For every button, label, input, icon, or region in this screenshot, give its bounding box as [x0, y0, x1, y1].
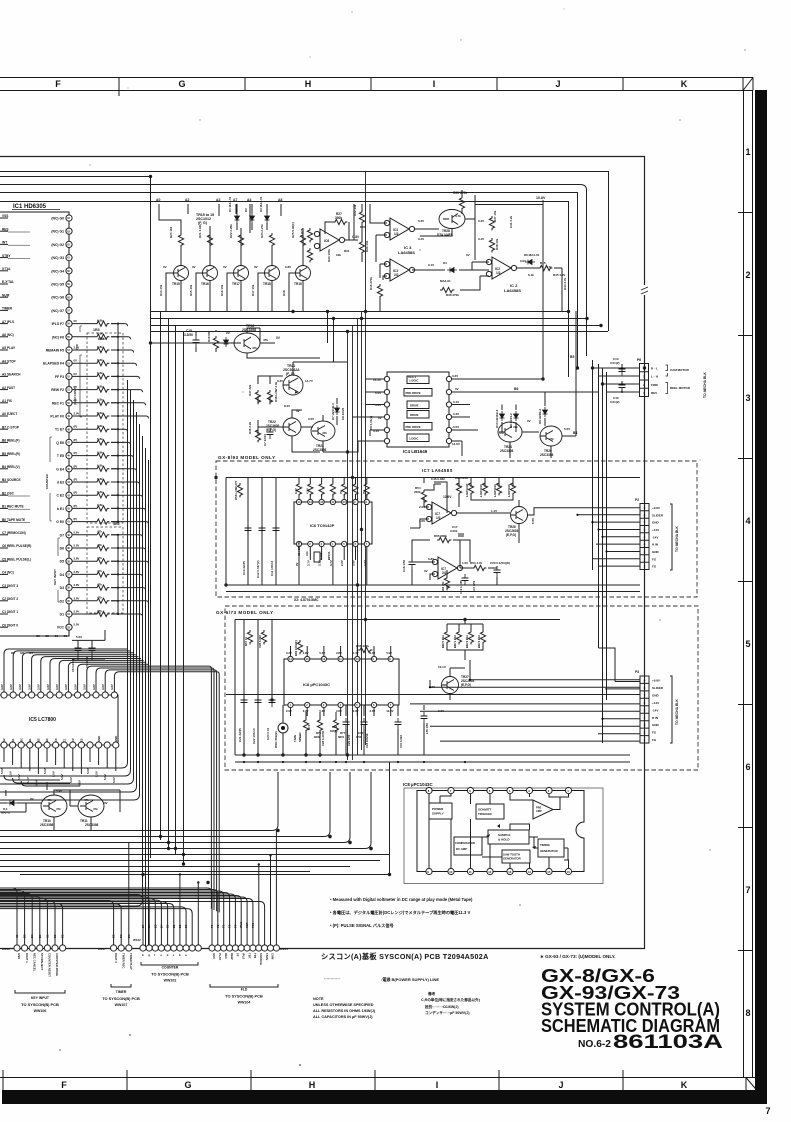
svg-text:KEY INPUT: KEY INPUT — [53, 569, 57, 585]
svg-text:D7 HZ11B-3: D7 HZ11B-3 — [331, 403, 335, 420]
svg-text:F: F — [55, 79, 61, 89]
svg-text:5.0V: 5.0V — [69, 777, 73, 783]
svg-text:KEY INPUT: KEY INPUT — [31, 996, 50, 1000]
wires IC4 left pins — [347, 379, 384, 452]
svg-text:GX-8/93 MODEL ONLY: GX-8/93 MODEL ONLY — [218, 455, 276, 460]
svg-text:TR15: TR15 — [172, 282, 180, 286]
wires into P2 — [578, 515, 641, 566]
R66 R67 C19 cluster — [444, 576, 449, 590]
svg-text:5.0V: 5.0V — [74, 530, 80, 534]
resistors R70-R73 — [444, 630, 449, 644]
svg-text:F: F — [61, 1080, 67, 1090]
svg-text:B0: B0 — [45, 738, 49, 742]
wires IC7-1 — [410, 478, 640, 544]
svg-text:D1 MA4-01: D1 MA4-01 — [228, 196, 232, 212]
svg-text:3: 3 — [745, 393, 750, 403]
svg-text:REW: REW — [230, 953, 234, 960]
svg-text:47k: 47k — [97, 596, 102, 600]
svg-text:47k: 47k — [84, 798, 89, 802]
svg-text:3.8V: 3.8V — [55, 684, 59, 690]
node labels A0 A2 A3 A7 A4 A8 — [156, 198, 282, 202]
svg-text:C1: C1 — [62, 738, 66, 742]
svg-text::電源 B(POWER SUPPLY) LINE: :電源 B(POWER SUPPLY) LINE — [381, 976, 439, 982]
svg-text:R24 2.27k: R24 2.27k — [260, 224, 264, 238]
svg-text:0V: 0V — [296, 409, 300, 413]
svg-text:ALL CAPACITORS IN µF 50WV(J): ALL CAPACITORS IN µF 50WV(J) — [313, 1015, 373, 1019]
svg-text:TIMER PLAY: TIMER PLAY — [129, 953, 133, 970]
svg-text:D3 MA4-01: D3 MA4-01 — [259, 196, 263, 212]
svg-text:4: 4 — [745, 516, 750, 526]
svg-text:SUPPLY: SUPPLY — [432, 812, 444, 816]
resistor R20 — [178, 233, 183, 247]
svg-text:G E4: G E4 — [56, 467, 64, 471]
op-amp IC3 second half — [390, 259, 409, 281]
wires around TR28 — [414, 190, 475, 260]
svg-text:5: 5 — [745, 639, 750, 649]
svg-text:O-IN: O-IN — [352, 235, 359, 239]
svg-text:············: ············ — [324, 976, 340, 981]
svg-text:ALL RESISTORS IN OHMS 1/6W(J): ALL RESISTORS IN OHMS 1/6W(J) — [313, 1009, 376, 1013]
svg-text:W106: W106 — [2, 947, 10, 951]
svg-text:6.8k: 6.8k — [97, 503, 103, 507]
svg-text:R64 4.7k: R64 4.7k — [470, 561, 483, 565]
svg-text:3.4V: 3.4V — [418, 237, 424, 241]
svg-text:R36 270k: R36 270k — [446, 293, 459, 297]
svg-text:PLAY: PLAY — [218, 953, 222, 960]
svg-text:(NC) G0: (NC) G0 — [51, 217, 64, 221]
svg-text:D6: D6 — [60, 547, 64, 551]
IC4 LB1649 — [387, 372, 449, 447]
svg-text:5.0V: 5.0V — [17, 774, 21, 780]
svg-text:47k: 47k — [97, 569, 102, 573]
svg-text:NOTE: NOTE — [313, 997, 324, 1001]
svg-text:2/2: 2/2 — [394, 273, 399, 277]
svg-text:REC CANCEL: REC CANCEL — [32, 953, 36, 972]
diode D7 — [335, 405, 340, 415]
IC1 box — [0, 212, 69, 636]
svg-text:R45 4.7k: R45 4.7k — [553, 273, 566, 277]
svg-text:REC: REC — [224, 953, 228, 959]
svg-text:C22 100/10: C22 100/10 — [252, 728, 256, 744]
svg-text:IC7 LA6458S: IC7 LA6458S — [422, 468, 453, 473]
svg-text:シスコン(A)基板 SYSCON(A) PCB T2094: シスコン(A)基板 SYSCON(A) PCB T2094A502A — [321, 952, 489, 961]
caps C6 C5 below VCC pin — [75, 644, 82, 655]
svg-text:TBT: TBT — [247, 953, 251, 959]
svg-text:2.8V: 2.8V — [336, 651, 342, 655]
svg-text:3.8V: 3.8V — [83, 684, 87, 690]
svg-text:D7: D7 — [60, 533, 64, 537]
svg-text:5.0V: 5.0V — [74, 623, 80, 627]
svg-text:47k: 47k — [322, 431, 327, 435]
svg-text:0.001: 0.001 — [450, 529, 458, 533]
tiny voltage labels — [159, 265, 291, 296]
diode D10 — [500, 411, 505, 421]
wire: IC1 fan bundle verticals — [0, 380, 149, 948]
transistor TR17 — [234, 266, 249, 281]
svg-text:B7 C-STOP: B7 C-STOP — [2, 425, 20, 429]
transistor TR11 — [78, 795, 104, 817]
svg-text:3.0V: 3.0V — [74, 596, 80, 600]
svg-text:H: H — [305, 79, 312, 89]
svg-text:CAM: CAM — [271, 953, 275, 960]
wire: outer loop bus top/right/bottom — [0, 157, 645, 949]
resistor R31 vertical right — [359, 210, 364, 224]
svg-text:LOGIC: LOGIC — [410, 379, 419, 383]
svg-text:3.8V: 3.8V — [18, 684, 22, 690]
wire: P6 vertical feeders — [593, 360, 607, 743]
resistor R24 — [269, 233, 274, 247]
svg-text:C,Rの単位(特に指定された部品以外): C,Rの単位(特に指定された部品以外) — [421, 997, 481, 1002]
svg-text:P6: P6 — [637, 358, 641, 362]
svg-text:47k: 47k — [305, 551, 309, 556]
svg-text:L55 1/50: L55 1/50 — [425, 723, 429, 734]
svg-text:2.9V: 2.9V — [303, 651, 309, 655]
svg-text:• 各電圧は、デジタル電圧計(DCレンジ)でメタルテープ: • 各電圧は、デジタル電圧計(DCレンジ)でメタルテープ再生時の電圧஺11.3 … — [330, 909, 470, 916]
svg-text:D4: D4 — [60, 573, 64, 577]
svg-text:6.8k: 6.8k — [97, 490, 103, 494]
svg-text:L/4W R1Ω: L/4W R1Ω — [465, 483, 469, 497]
svg-text:300k: 300k — [335, 216, 342, 220]
svg-text:(E,F,G): (E,F,G) — [506, 533, 516, 537]
svg-text:5.0V: 5.0V — [74, 544, 80, 548]
op-amp / IC region top-middle will be added — [0, 204, 79, 636]
transistor TR28 DTA144ES in ellipse — [439, 210, 465, 229]
svg-text:R56 L/4W 270: R56 L/4W 270 — [234, 480, 238, 500]
resistor array 1R2 47k ladder — [72, 522, 123, 617]
wire: bus line 3 (turns down x=150) — [0, 177, 151, 859]
svg-text:6.8k: 6.8k — [97, 464, 103, 468]
svg-text:6.8k: 6.8k — [97, 332, 103, 336]
diode D10 MA-01 — [7, 801, 17, 806]
capacitor C22 — [257, 620, 259, 756]
transistor TR20 — [540, 426, 562, 446]
svg-text:A0 EJECT: A0 EJECT — [2, 412, 17, 416]
svg-text:OSC: OSC — [212, 953, 216, 959]
svg-text:D9 HZ3B-2: D9 HZ3B-2 — [538, 408, 542, 424]
svg-text:C23 100/16: C23 100/16 — [365, 733, 369, 748]
svg-text:b: b — [179, 953, 181, 957]
svg-text:WW106: WW106 — [34, 1009, 47, 1013]
svg-text:IC6 TC9142P: IC6 TC9142P — [310, 523, 335, 528]
svg-text:C2 DIGIT 2: C2 DIGIT 2 — [2, 597, 18, 601]
svg-text:R20 162: R20 162 — [169, 226, 173, 238]
svg-text:2SC3398: 2SC3398 — [242, 328, 256, 332]
svg-text:47k: 47k — [97, 556, 102, 560]
svg-text:NUM: NUM — [2, 293, 10, 297]
svg-text:R46 2.2k: R46 2.2k — [248, 421, 252, 434]
capacitor C7 — [267, 428, 274, 439]
svg-text:C7 (REMOCON): C7 (REMOCON) — [2, 531, 26, 535]
svg-text:POWER: POWER — [432, 807, 444, 811]
transistor TR27 — [442, 677, 459, 694]
svg-text:GND: GND — [652, 723, 660, 727]
svg-text:(P): (P) — [74, 451, 78, 455]
svg-text:TO MECHA BLK: TO MECHA BLK — [675, 699, 679, 725]
svg-text:TR18: TR18 — [263, 282, 271, 286]
svg-text:15: 15 — [547, 870, 551, 874]
svg-text:GND: GND — [652, 550, 660, 554]
svg-text:DRIVE: DRIVE — [410, 404, 419, 408]
svg-text:C26 0.022: C26 0.022 — [258, 635, 262, 648]
svg-text:B5 REEL(R): B5 REEL(R) — [2, 452, 20, 456]
svg-text:8.3V: 8.3V — [294, 488, 298, 494]
svg-text:6.8k: 6.8k — [97, 371, 103, 375]
svg-text:COUNTER: COUNTER — [162, 966, 179, 970]
svg-text:TIMER: TIMER — [2, 307, 13, 311]
svg-text:W102: W102 — [133, 938, 141, 942]
IC8 uPC1043C box — [284, 659, 399, 705]
svg-text:TR19: TR19 — [294, 282, 302, 286]
svg-text:IC5 LC7800: IC5 LC7800 — [29, 717, 56, 723]
svg-text:WR1 56k(B): WR1 56k(B) — [274, 731, 278, 748]
svg-text:2.9V: 2.9V — [286, 709, 292, 713]
svg-text:SCHMITT: SCHMITT — [478, 808, 491, 812]
svg-text:LA6458S: LA6458S — [398, 250, 415, 255]
svg-text:A2: A2 — [185, 198, 189, 202]
svg-text:A4 STOP: A4 STOP — [2, 359, 16, 363]
svg-text:(P): (P) — [74, 425, 78, 429]
resistor R27 300k — [333, 219, 347, 224]
svg-text:0.1V: 0.1V — [453, 400, 459, 404]
svg-text:IC8 µPC1043C: IC8 µPC1043C — [303, 682, 330, 687]
svg-text:NO.6-2: NO.6-2 — [578, 1039, 611, 1050]
wires IC4 right pins — [452, 256, 599, 456]
svg-text:3.3/50: 3.3/50 — [184, 333, 193, 337]
wires IC8 to P3 — [226, 660, 640, 700]
svg-text:3.8V: 3.8V — [92, 684, 96, 690]
svg-text:C5 REEL PULSE(L): C5 REEL PULSE(L) — [2, 557, 31, 561]
svg-text:A7: A7 — [233, 198, 237, 202]
op-amp IC7 2/2 — [438, 557, 457, 579]
svg-text:LOGIC: LOGIC — [410, 437, 419, 441]
svg-text:14.6V: 14.6V — [452, 442, 460, 446]
notes bullets — [330, 897, 473, 929]
svg-text:C0: C0 — [54, 738, 58, 742]
svg-text:D3: D3 — [60, 586, 64, 590]
svg-text:6.8k: 6.8k — [97, 411, 103, 415]
svg-text:COUNTER: COUNTER — [45, 473, 49, 489]
svg-text:IC6: IC6 — [324, 239, 329, 243]
svg-text:8.4V: 8.4V — [284, 404, 290, 408]
wires left of IC3 — [370, 204, 387, 311]
svg-text:TIMING: TIMING — [540, 843, 550, 847]
svg-text:R65 680k: R65 680k — [434, 534, 447, 538]
svg-text:T1 E7: T1 E7 — [55, 428, 64, 432]
svg-text:REC F1: REC F1 — [52, 401, 64, 405]
svg-text:P3: P3 — [635, 670, 639, 674]
potentiometer WR1 — [278, 723, 288, 733]
svg-text:R16 10k: R16 10k — [220, 284, 224, 296]
svg-text:Q E6: Q E6 — [56, 441, 64, 445]
svg-text:A4: A4 — [247, 198, 251, 202]
svg-text:B6 REEL(F): B6 REEL(F) — [2, 439, 20, 443]
connector W104 — [209, 945, 215, 951]
svg-text:2SC3398: 2SC3398 — [85, 823, 99, 827]
svg-text:FG: FG — [652, 731, 657, 735]
svg-text:• Measured with Digital volt: • Measured with Digital voltmeter in DC … — [330, 897, 473, 902]
svg-text:4.7k: 4.7k — [455, 214, 461, 218]
svg-text:GND: GND — [17, 953, 21, 959]
svg-text:3.8V: 3.8V — [101, 684, 105, 690]
resistor R46 — [255, 428, 260, 442]
svg-text:5.0V: 5.0V — [86, 768, 90, 774]
svg-text:TAPE: TAPE — [265, 953, 269, 960]
svg-text:(E,F,G): (E,F,G) — [266, 428, 276, 432]
connector W107 — [111, 945, 117, 951]
svg-text:d E3: d E3 — [57, 481, 64, 485]
resistor R64 4.7k — [472, 565, 486, 570]
top-right corner diagonal — [743, 78, 753, 91]
svg-text:47k: 47k — [97, 543, 102, 547]
svg-text:R47 22k: R47 22k — [248, 384, 252, 396]
svg-text:10k: 10k — [336, 253, 341, 257]
svg-text:REMAIN F5: REMAIN F5 — [46, 349, 64, 353]
svg-text:5.0V: 5.0V — [95, 771, 99, 777]
svg-text:C0 DIGIT 0: C0 DIGIT 0 — [2, 623, 18, 627]
svg-text:GND: GND — [652, 693, 660, 697]
svg-text:C9 0.01(2): C9 0.01(2) — [369, 416, 373, 430]
svg-text:TAPE: TAPE — [293, 735, 297, 742]
svg-text:6.5V: 6.5V — [531, 518, 535, 524]
svg-text:C31 0.022: C31 0.022 — [399, 735, 403, 748]
svg-text:5.0V: 5.0V — [76, 635, 82, 639]
svg-text:6.1k: 6.1k — [528, 273, 534, 277]
svg-text:10: 10 — [449, 870, 453, 874]
dashed box GX-8/93 — [216, 461, 697, 597]
svg-text:GENERATOR: GENERATOR — [540, 849, 558, 853]
svg-text:1/2: 1/2 — [394, 232, 399, 236]
svg-text:DIGIT 3: DIGIT 3 — [114, 953, 118, 963]
svg-text:1.4V: 1.4V — [353, 651, 359, 655]
svg-text:TRIGGER: TRIGGER — [478, 812, 493, 816]
resistor R54 220k — [421, 490, 426, 504]
diode D3 — [265, 213, 270, 223]
wire: bus line 6 — [0, 202, 569, 378]
svg-text:9.1V: 9.1V — [428, 263, 434, 267]
svg-text:R31: R31 — [344, 249, 350, 253]
svg-text:W107: W107 — [98, 947, 106, 951]
svg-text:BR72 R10: BR72 R10 — [465, 634, 469, 648]
resistor array 1R3 6.8k ladder — [72, 318, 123, 524]
wires right transistors — [502, 311, 576, 458]
svg-text:3.7V: 3.7V — [306, 560, 310, 566]
svg-text:R66 15k: R66 15k — [441, 581, 445, 592]
svg-text:b E1: b E1 — [57, 507, 64, 511]
svg-text:R18: R18 — [282, 290, 286, 296]
svg-text:PRE DRIVE: PRE DRIVE — [406, 425, 421, 429]
capacitor C12 — [261, 478, 263, 586]
IC6 TC9142P pins — [294, 478, 369, 586]
svg-text:WW107: WW107 — [115, 1003, 128, 1007]
svg-text:L/4W R10: L/4W R10 — [507, 484, 511, 497]
svg-text:R22 2.26k: R22 2.26k — [229, 224, 233, 238]
svg-text:C18 1/50: C18 1/50 — [402, 559, 406, 572]
wires TR10/TR11 box — [0, 782, 120, 830]
transistor TR13 — [234, 333, 451, 443]
svg-text:X2: 4.8701GMC: X2: 4.8701GMC — [294, 598, 319, 602]
svg-text:P2: P2 — [635, 498, 639, 502]
svg-text:BR70 R10: BR70 R10 — [441, 634, 445, 648]
braces — [666, 365, 668, 394]
resistor R34 — [307, 248, 312, 262]
svg-text:GND: GND — [114, 736, 118, 742]
svg-text:R34 100k: R34 100k — [327, 249, 331, 262]
svg-text:5.0V: 5.0V — [52, 771, 56, 777]
svg-text:D5: D5 — [60, 560, 64, 564]
svg-text:3.8V: 3.8V — [74, 557, 80, 561]
svg-text:TIMER REC: TIMER REC — [121, 953, 125, 968]
wires IC2/IC3 second half region — [412, 262, 562, 311]
IC1 left pin stubs and labels — [0, 214, 31, 627]
main wiring backbone — [0, 157, 648, 949]
svg-text:3.0V: 3.0V — [74, 412, 80, 416]
transistor TR26 — [511, 507, 528, 524]
svg-text:STBY: STBY — [2, 254, 11, 258]
IC1 pin circles and internal labels — [43, 215, 79, 630]
bottom black scan bar — [2, 1090, 767, 1104]
svg-text:FF F3: FF F3 — [55, 375, 64, 379]
svg-text:C3 DIGIT 3: C3 DIGIT 3 — [2, 584, 18, 588]
svg-text:R37 10k: R37 10k — [493, 210, 497, 222]
svg-text:C28 0.47/50: C28 0.47/50 — [321, 730, 325, 746]
svg-text:DC AMP: DC AMP — [456, 847, 467, 851]
svg-text:E-X'TAL: E-X'TAL — [2, 280, 14, 284]
svg-text:3.8V: 3.8V — [110, 684, 114, 690]
svg-text:5.0V: 5.0V — [43, 768, 47, 774]
diode D4 — [447, 268, 457, 273]
svg-text:D6 MA4-01: D6 MA4-01 — [524, 253, 540, 257]
svg-text:A7 IPLS: A7 IPLS — [2, 320, 14, 324]
svg-text:TP6: TP6 — [253, 953, 257, 959]
svg-text:SPEED: SPEED — [298, 733, 302, 742]
svg-text:WW102: WW102 — [164, 979, 177, 983]
svg-text:12: 12 — [488, 870, 492, 874]
svg-text:GND: GND — [97, 736, 101, 742]
wire: riser x278 — [0, 772, 278, 831]
R16 270k lower-left of IC3 — [377, 284, 382, 298]
svg-text:J: J — [555, 79, 560, 89]
svg-text:7: 7 — [765, 1106, 770, 1116]
svg-text:W104: W104 — [280, 947, 288, 951]
transistor TR21 — [283, 375, 303, 395]
svg-text:0V: 0V — [455, 387, 459, 391]
svg-text:BR73 R10: BR73 R10 — [477, 634, 481, 648]
wire verticals near 362 — [354, 204, 362, 262]
svg-text:47k: 47k — [252, 346, 257, 350]
wire: mid horizontal bus — [150, 312, 608, 332]
svg-text:3.8V: 3.8V — [9, 684, 13, 690]
svg-text:備考: 備考 — [428, 991, 436, 996]
svg-text:5.0V: 5.0V — [112, 777, 116, 783]
svg-text:A3 SEARCH: A3 SEARCH — [2, 373, 21, 377]
svg-text:4.7k: 4.7k — [546, 265, 552, 269]
svg-text:LA6458S: LA6458S — [504, 288, 521, 293]
svg-text:SLIDER: SLIDER — [652, 513, 664, 517]
svg-text:5.0V: 5.0V — [0, 768, 4, 774]
svg-text:ELAPSED F4: ELAPSED F4 — [43, 362, 64, 366]
svg-text:1/2: 1/2 — [496, 271, 501, 275]
svg-text:3.8V: 3.8V — [64, 684, 68, 690]
svg-text:VSS: VSS — [2, 214, 8, 218]
resistors R50-R53 — [468, 481, 473, 495]
svg-text:R26: R26 — [300, 228, 304, 234]
svg-text:E5: E5 — [80, 738, 84, 742]
svg-text:A6 (NC): A6 (NC) — [2, 333, 14, 337]
svg-text:A2: A2 — [2, 738, 6, 742]
svg-text:3.9V: 3.9V — [352, 560, 356, 566]
IC8 uPC1043C pins — [235, 646, 630, 763]
diode D14 — [224, 337, 229, 347]
